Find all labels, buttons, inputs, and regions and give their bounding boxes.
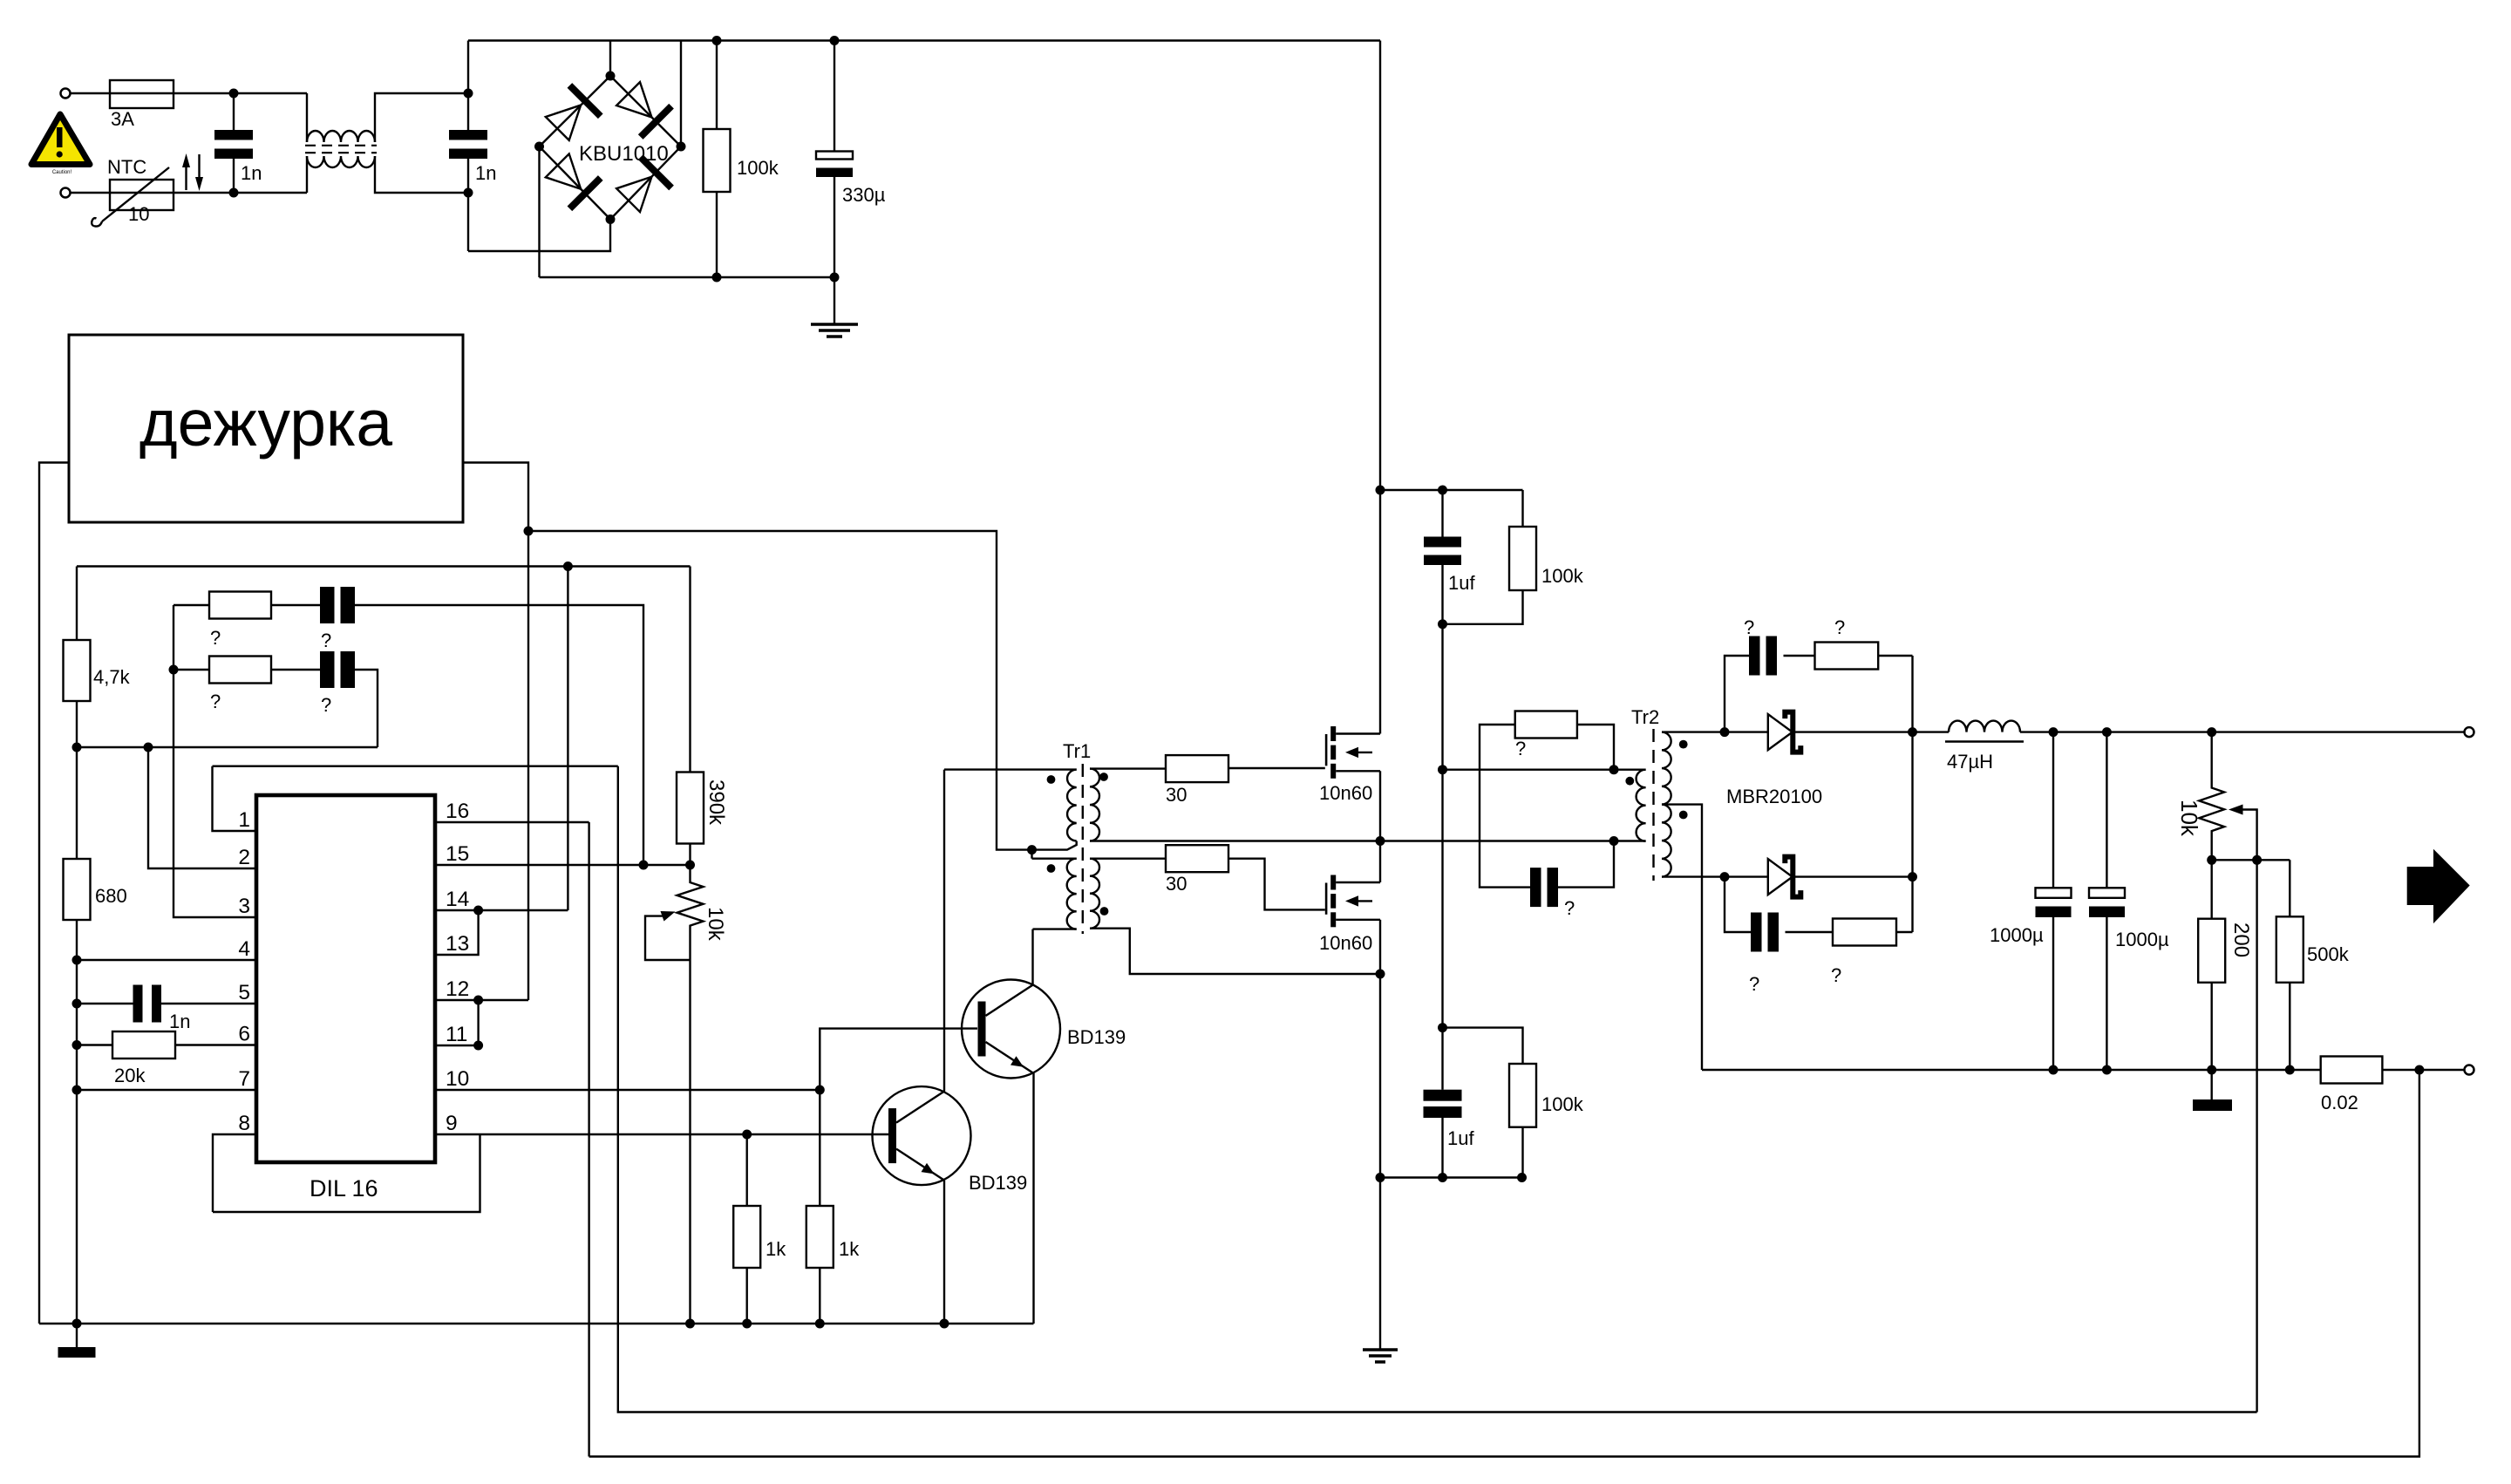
- wire pin2: [148, 747, 256, 868]
- node divider mid: [72, 743, 82, 752]
- svg-text:?: ?: [321, 630, 331, 651]
- svg-text:8: 8: [238, 1112, 250, 1135]
- svg-text:11: 11: [446, 1023, 467, 1046]
- svg-text:MBR20100: MBR20100: [1726, 786, 1822, 807]
- svg-text:9: 9: [446, 1112, 458, 1135]
- wire pin14-13 link: [435, 910, 479, 955]
- wire W1 top: [944, 768, 1077, 770]
- Tr1 winding W3 primary lower: [1067, 859, 1077, 929]
- capacitor C? row1: [320, 587, 335, 623]
- svg-text:500k: 500k: [2307, 943, 2350, 965]
- resistor 30 upper: [1166, 755, 1228, 782]
- ground power: [1363, 1348, 1398, 1351]
- wire row2 left: [174, 669, 209, 671]
- wire vcc line: [77, 565, 691, 567]
- Tr2 primary winding: [1637, 770, 1646, 841]
- wire cathode lower: [1795, 875, 1913, 877]
- wire to inductor: [1913, 731, 1950, 732]
- node Q1 emitter gnd: [940, 1319, 949, 1329]
- IC U1 DIL 16: [256, 795, 435, 1162]
- MOSFET M2 channel: [1325, 883, 1328, 915]
- wire bridge bottom link: [468, 220, 610, 252]
- wire vcc to 390k: [689, 567, 691, 773]
- svg-text:дежурка: дежурка: [139, 386, 392, 459]
- svg-text:1uf: 1uf: [1447, 1127, 1474, 1149]
- capacitor C? Tr2 snubber: [1530, 868, 1541, 907]
- bridge node plus: [677, 142, 686, 152]
- capacitor 1n pin5: [133, 985, 143, 1023]
- svg-text:?: ?: [1831, 964, 1841, 986]
- wire 1k1 down: [746, 1268, 748, 1324]
- svg-text:30: 30: [1166, 784, 1187, 806]
- svg-text:Tr2: Tr2: [1631, 706, 1659, 728]
- node switch mid: [1376, 836, 1385, 846]
- wire M1 source body: [1379, 771, 1381, 841]
- svg-text:Tr1: Tr1: [1063, 740, 1091, 762]
- Tr1 dot W4: [1100, 907, 1109, 916]
- wire pin15: [435, 864, 691, 866]
- svg-text:?: ?: [1744, 616, 1754, 638]
- wire row1 left: [174, 604, 209, 606]
- svg-text:390k: 390k: [704, 779, 728, 826]
- node 390k bottom: [685, 861, 695, 870]
- current arrow up: [185, 164, 187, 190]
- 10k out wiper arrow: [2229, 805, 2243, 815]
- 10k wiper arrow: [661, 911, 676, 922]
- choke core: [305, 145, 377, 146]
- resistor 100k bleeder: [716, 41, 718, 130]
- svg-text:BD139: BD139: [969, 1172, 1027, 1194]
- wire pin3 stub: [174, 605, 256, 917]
- wire pin14: [435, 909, 568, 911]
- svg-text:200: 200: [2229, 922, 2253, 957]
- node pin4 tap: [72, 956, 82, 965]
- resistor R? Tr2 snubber: [1515, 711, 1577, 739]
- node pin7 tap: [72, 1086, 82, 1095]
- node Cout2 bottom: [2102, 1065, 2112, 1075]
- svg-text:10: 10: [446, 1067, 469, 1091]
- svg-text:1000µ: 1000µ: [2115, 929, 2169, 950]
- svg-text:1uf: 1uf: [1448, 572, 1475, 594]
- node C1 bottom: [229, 188, 239, 198]
- node 1k1 gnd: [742, 1319, 752, 1329]
- capacitor C? sec lower: [1751, 913, 1762, 952]
- node cathodes upper: [1908, 727, 1917, 737]
- NTC slash: [102, 167, 169, 221]
- wire 20k to pin6: [175, 1044, 256, 1045]
- ground bridge: [834, 277, 835, 324]
- resistor 4,7k: [76, 567, 78, 641]
- wire bridge plus up: [680, 41, 682, 147]
- wire 200 down: [2210, 983, 2212, 1070]
- wire 20k left: [77, 1044, 112, 1045]
- Tr1 winding W4 gate lower: [1090, 859, 1099, 929]
- node Cout1 bottom: [2049, 1065, 2058, 1075]
- wire fuse to C1 node: [174, 92, 307, 94]
- wire pin8 stub: [213, 1134, 256, 1212]
- node Tr2 prim top: [1609, 765, 1619, 774]
- node 100k bottom: [712, 273, 722, 283]
- wire center stub down: [1031, 850, 1032, 859]
- wire 200 up: [2210, 860, 2212, 918]
- wire M1 drain up: [1379, 41, 1381, 734]
- wire dezhurka left out: [39, 463, 69, 1324]
- node Cout1 top: [2049, 727, 2058, 737]
- capacitor 330µ: [834, 41, 835, 152]
- current arrow down: [198, 154, 200, 180]
- wire 1k2 up: [819, 1090, 820, 1206]
- wire sec snub right: [1878, 655, 1912, 657]
- node sense: [2414, 1065, 2424, 1075]
- wire feedback voltage: [618, 766, 2257, 1413]
- inductor 47µH core: [1945, 740, 2024, 742]
- node 330u bottom: [830, 273, 840, 283]
- wire sec snub up: [1725, 656, 1749, 732]
- node base1: [742, 1130, 752, 1140]
- MOSFET M1 channel: [1325, 734, 1328, 766]
- capacitor C? row2: [320, 651, 335, 688]
- svg-text:10n60: 10n60: [1319, 782, 1372, 804]
- svg-text:NTC: NTC: [107, 156, 146, 178]
- node 1k2 gnd: [815, 1319, 825, 1329]
- resistor 1k first: [733, 1206, 760, 1268]
- wire 100k up bottom: [1443, 590, 1523, 624]
- bridge node AC1: [606, 71, 616, 81]
- node Tr1 center: [1027, 845, 1037, 854]
- wire bridge top corner: [609, 41, 611, 77]
- capacitor C1 1n: [233, 93, 235, 130]
- svg-text:3: 3: [238, 895, 250, 918]
- wire row1 right: [355, 605, 643, 865]
- svg-text:30: 30: [1166, 873, 1187, 895]
- thermistor NTC 10: [110, 180, 174, 210]
- Tr1 winding W1 primary upper: [1067, 770, 1077, 841]
- wire M2 source down: [1379, 920, 1381, 974]
- node primary top: [1438, 765, 1447, 774]
- wire pin1 stub: [213, 766, 257, 831]
- wire pin7: [77, 1089, 256, 1091]
- wire pin5 stub: [161, 1003, 256, 1004]
- wire prim snub left: [1480, 725, 1530, 888]
- wire 100k up right: [1521, 490, 1523, 527]
- wire row2 mid: [271, 669, 320, 671]
- svg-text:20k: 20k: [114, 1065, 146, 1086]
- 10k out wiper: [2242, 810, 2257, 1413]
- node lower snubber gnd: [1376, 1173, 1385, 1182]
- wire W2 bottom: [1090, 840, 1380, 841]
- svg-text:DIL 16: DIL 16: [310, 1175, 378, 1201]
- wire row2 right: [355, 670, 378, 747]
- wire pin16 stub: [435, 821, 589, 823]
- diode MBR20100 lower: [1768, 857, 1801, 897]
- resistor 30 lower: [1166, 845, 1228, 872]
- svg-text:1: 1: [238, 808, 250, 832]
- svg-text:10n60: 10n60: [1319, 932, 1372, 954]
- node rail snubber: [1376, 486, 1385, 495]
- wire 10k down: [689, 960, 691, 1324]
- wire 1k1 up: [746, 1134, 748, 1206]
- Tr2 dot sec lower: [1679, 811, 1688, 820]
- svg-text:BD139: BD139: [1067, 1026, 1126, 1048]
- svg-text:100k: 100k: [737, 157, 779, 179]
- wire W3 top: [1032, 858, 1077, 860]
- warning triangle Caution: [31, 114, 90, 165]
- wire sec snub mid: [1784, 655, 1815, 657]
- wire to Tr2 primary top: [1443, 769, 1615, 771]
- svg-text:330µ: 330µ: [842, 184, 886, 206]
- terminal OUT plus: [2465, 727, 2474, 737]
- node Cout2 top: [2102, 727, 2112, 737]
- terminal OUT minus: [2465, 1065, 2474, 1075]
- Tr2 dot sec upper: [1679, 740, 1688, 749]
- svg-text:4,7k: 4,7k: [93, 666, 131, 688]
- wire M2 source to gnd: [1379, 974, 1381, 1350]
- wire prim snub up: [1577, 725, 1614, 770]
- wire 100k low bottom: [1521, 1127, 1523, 1178]
- inductor 47µH: [1949, 721, 2020, 732]
- svg-text:?: ?: [1834, 616, 1845, 638]
- wire sec bottom: [1662, 875, 1768, 877]
- node pin14: [473, 906, 483, 916]
- svg-text:1k: 1k: [766, 1238, 786, 1260]
- svg-text:10k: 10k: [704, 907, 727, 942]
- wire L input to fuse: [70, 92, 110, 94]
- wire feedback current: [589, 1070, 2419, 1457]
- resistor R? sec upper: [1815, 643, 1879, 670]
- svg-text:?: ?: [210, 691, 221, 712]
- svg-text:7: 7: [238, 1067, 250, 1091]
- arrow head down: [195, 177, 203, 191]
- node pin6 tap: [72, 1040, 82, 1050]
- node 1uf upper top: [1438, 486, 1447, 495]
- node pot top: [2207, 727, 2216, 737]
- resistor 680: [76, 747, 78, 859]
- wire Q1 collector up: [943, 770, 945, 1092]
- wire ground rail: [39, 1323, 1034, 1324]
- Tr1 winding W2 gate upper: [1090, 769, 1099, 841]
- node cathodes lower: [1908, 872, 1917, 882]
- 10k wiper: [645, 916, 691, 960]
- output arrow: [2407, 849, 2470, 923]
- wire pin12-11 link: [477, 1000, 479, 1045]
- wire NTC to C1 node: [174, 192, 307, 194]
- bridge node AC2: [606, 214, 616, 224]
- wire pin4: [77, 959, 256, 961]
- svg-text:4: 4: [238, 937, 250, 961]
- transistor Q1 BD139 lower: [873, 1086, 971, 1185]
- wire pin10: [435, 1089, 820, 1091]
- capacitor 1uf lower: [1441, 1028, 1443, 1090]
- wire N input to NTC: [70, 192, 110, 194]
- svg-text:KBU1010: KBU1010: [579, 142, 669, 166]
- wire sec center tap: [1662, 805, 1702, 1070]
- svg-text:16: 16: [446, 800, 469, 823]
- choke winding bottom: [307, 156, 375, 167]
- node C2 top: [464, 89, 473, 99]
- wire Q2 collector up: [1031, 929, 1033, 984]
- wire prim snub right: [1558, 841, 1615, 888]
- svg-text:?: ?: [210, 627, 221, 649]
- wire pin11 stub: [435, 1045, 479, 1046]
- svg-text:10k: 10k: [2176, 800, 2202, 837]
- wire pin16 feedback down: [588, 822, 589, 1457]
- diode D1 bridge upper-left: [542, 85, 601, 144]
- diode D4 bridge lower-right: [613, 157, 671, 215]
- diode MBR20100 upper: [1768, 712, 1801, 752]
- diode D2 bridge upper-right: [613, 78, 671, 137]
- resistor R? sec lower: [1833, 919, 1896, 946]
- svg-text:47µH: 47µH: [1947, 751, 1993, 773]
- node 200 bottom: [2207, 1065, 2216, 1075]
- wire W4 bottom: [1090, 929, 1380, 974]
- wire to choke top left: [306, 93, 308, 142]
- wire output return: [1702, 1069, 2321, 1071]
- wire sec snub2 down: [1725, 877, 1751, 932]
- node row1 to pin15: [639, 861, 649, 870]
- node RC row2 left: [169, 665, 179, 675]
- wire top rail: [468, 39, 1380, 41]
- wire W1 bottom: [1032, 841, 1077, 850]
- wire pin9 base1: [435, 1133, 888, 1135]
- svg-text:Caution!: Caution!: [52, 170, 72, 175]
- node anode lower: [1720, 872, 1730, 882]
- wire W4 top to 30: [1090, 858, 1166, 860]
- svg-text:3A: 3A: [111, 108, 134, 130]
- wire 1n left: [77, 1003, 133, 1004]
- bridge rectifier KBU1010 diamond: [540, 76, 682, 220]
- wire 30 to gate2: [1228, 859, 1325, 910]
- svg-text:1k: 1k: [839, 1238, 860, 1260]
- wire choke bottom right: [375, 156, 468, 193]
- node 500k bottom: [2285, 1065, 2295, 1075]
- svg-text:?: ?: [321, 694, 331, 716]
- wire divider mid down: [1441, 624, 1443, 1028]
- block дежурка standby supply: [69, 335, 463, 522]
- capacitor C? sec upper: [1749, 636, 1760, 676]
- svg-text:100k: 100k: [1541, 565, 1584, 587]
- wire pin1 feedback top: [213, 766, 618, 767]
- node 330u top: [830, 36, 840, 45]
- choke winding top: [307, 131, 375, 142]
- resistor 500k: [2276, 916, 2303, 983]
- arrow head up: [182, 153, 190, 167]
- svg-text:12: 12: [446, 977, 469, 1001]
- Tr1 dot W3: [1047, 864, 1056, 873]
- resistor 200: [2198, 919, 2225, 983]
- capacitor 1000µ first: [2052, 732, 2054, 888]
- svg-text:1n: 1n: [169, 1011, 190, 1032]
- svg-text:14: 14: [446, 888, 469, 911]
- wire cathode join: [1911, 656, 1913, 932]
- 10k out zigzag: [2199, 732, 2224, 861]
- wire Q1 emitter down: [943, 1181, 945, 1324]
- terminal N input: [61, 188, 71, 198]
- svg-text:1n: 1n: [475, 162, 496, 184]
- wire base2 up: [820, 1029, 977, 1090]
- wire choke top right: [375, 93, 468, 142]
- wire 1k2 down: [819, 1268, 820, 1324]
- svg-text:2: 2: [238, 846, 250, 869]
- bridge node minus: [534, 142, 544, 152]
- wire Tr2 prim bottom hook: [1614, 840, 1646, 841]
- Tr2 dot primary: [1625, 777, 1634, 786]
- wire dezhurka right out: [463, 463, 528, 532]
- fuse 3A: [110, 80, 174, 108]
- wire 100k low top: [1443, 1028, 1523, 1064]
- wire lower snubber gnd: [1380, 1176, 1522, 1178]
- wire sec snub2 right: [1896, 931, 1913, 933]
- node wiper tie: [2252, 855, 2262, 865]
- wire y857 link: [77, 746, 378, 748]
- wire row1 mid: [271, 604, 320, 606]
- wire shunt to out: [2382, 1069, 2464, 1071]
- node 10k gnd: [685, 1319, 695, 1329]
- wire inductor to out: [2020, 731, 2464, 732]
- node C1 top: [229, 89, 239, 99]
- svg-text:5: 5: [238, 981, 250, 1004]
- ground output: [2210, 1070, 2212, 1099]
- wire sec top: [1662, 731, 1768, 732]
- capacitor C2 1n: [467, 41, 469, 131]
- terminal L input: [61, 89, 71, 99]
- svg-text:1n: 1n: [241, 162, 262, 184]
- wire to choke bottom left: [306, 156, 308, 193]
- node pot bottom: [2207, 855, 2216, 865]
- node vcc branch: [563, 562, 573, 571]
- svg-text:100k: 100k: [1541, 1093, 1584, 1115]
- wire pot bottom link: [2212, 859, 2290, 861]
- wire bridge minus down: [538, 146, 540, 277]
- node base2: [815, 1086, 825, 1095]
- Tr2 secondary winding: [1662, 732, 1671, 877]
- node dezhurka supply: [524, 527, 534, 536]
- Tr1 dot W2: [1099, 773, 1108, 781]
- node C2 bottom: [464, 188, 473, 198]
- wire Q2 emitter down: [1032, 1073, 1034, 1324]
- transistor Q2 BD139 upper: [962, 980, 1060, 1079]
- svg-text:0.02: 0.02: [2321, 1092, 2358, 1113]
- wire switch to primary bottom: [1380, 840, 1614, 841]
- svg-text:13: 13: [446, 932, 469, 956]
- wire sec snub2 mid: [1786, 931, 1834, 933]
- wire 30 to gate1: [1228, 767, 1325, 769]
- diode D3 bridge lower-left: [542, 150, 601, 208]
- node gnd rail: [72, 1319, 82, 1329]
- node anode upper: [1720, 727, 1730, 737]
- svg-text:6: 6: [238, 1023, 250, 1046]
- svg-text:1000µ: 1000µ: [1990, 924, 2044, 946]
- svg-text:10: 10: [128, 203, 149, 225]
- svg-text:15: 15: [446, 842, 469, 866]
- node 1uf lower top: [1438, 1023, 1447, 1032]
- wire bottom rail bridge: [540, 276, 835, 278]
- wire W3 bottom: [1033, 928, 1077, 929]
- node 1uf lower bottom: [1438, 1173, 1447, 1182]
- Tr1 core: [1082, 764, 1084, 934]
- wire cathode upper: [1795, 731, 1913, 732]
- node pin11: [473, 1041, 483, 1051]
- ground control: [76, 1324, 78, 1347]
- svg-text:680: 680: [95, 885, 127, 907]
- wire W2 top to 30: [1090, 767, 1166, 769]
- svg-text:?: ?: [1564, 897, 1575, 919]
- capacitor 1000µ second: [2106, 732, 2107, 888]
- svg-text:?: ?: [1515, 738, 1526, 759]
- wire M2 drain up: [1379, 841, 1381, 883]
- Tr1 dot W1: [1047, 775, 1056, 784]
- node pin12: [473, 996, 483, 1005]
- wire Tr2 prim top hook: [1614, 769, 1646, 771]
